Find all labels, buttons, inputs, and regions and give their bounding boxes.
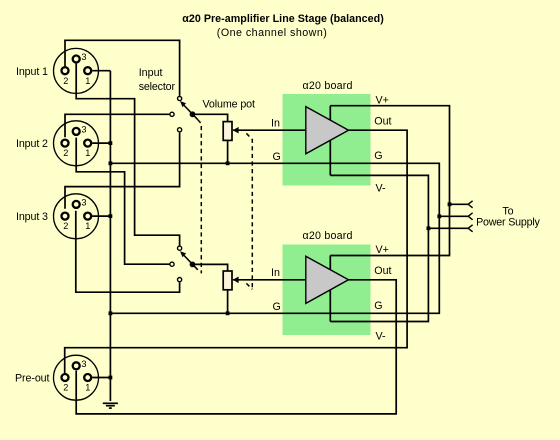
selector switch B — [170, 246, 198, 282]
svg-text:α20 board: α20 board — [303, 80, 353, 92]
svg-text:1: 1 — [85, 76, 90, 86]
dashed gang link selector A-B — [198, 120, 202, 274]
svg-text:3: 3 — [81, 124, 86, 134]
junction input3 pin1 — [109, 214, 113, 218]
svg-text:selector: selector — [139, 81, 176, 93]
wire pot2 bottom to G2 — [227, 290, 229, 313]
wire ground bus — [109, 71, 111, 401]
svg-text:3: 3 — [81, 52, 86, 62]
svg-text:To: To — [502, 205, 513, 217]
svg-text:3: 3 — [81, 359, 86, 369]
svg-text:1: 1 — [85, 148, 90, 158]
svg-text:G: G — [374, 300, 382, 312]
svg-text:α20 board: α20 board — [303, 230, 353, 242]
svg-text:2: 2 — [63, 148, 68, 158]
board 1 green block — [283, 94, 371, 186]
power supply line V- — [428, 225, 472, 232]
potentiometer VR2 body — [223, 271, 232, 290]
wire selector B common to pot2 top — [193, 264, 228, 271]
wire input2 pin2 to selector A middle contact — [65, 114, 169, 137]
svg-text:α20 Pre-amplifier Line Stage (: α20 Pre-amplifier Line Stage (balanced) — [182, 13, 384, 25]
svg-text:In: In — [271, 267, 280, 279]
wiper gang diagonal pot2 — [246, 283, 252, 289]
wire input2 pin3 to selector B middle contact — [76, 138, 169, 265]
wire input3 pin2 to selector A bottom contact — [65, 133, 180, 209]
junction pre-out pin1 — [109, 376, 113, 380]
wire pre-out pin1 to ground bus — [92, 377, 110, 379]
wire Out2 net to pre-out pin3 — [76, 280, 396, 414]
wire Out1 net to pre-out pin2 — [65, 130, 407, 373]
ground symbol — [103, 403, 118, 408]
wire V- net: V-1 line, V- bus, V-2 line — [330, 175, 428, 321]
wire V+ net: V+1 line, V+ bus, V+2 line — [330, 106, 449, 256]
svg-text:V+: V+ — [376, 244, 389, 256]
wire In2 from pot2 wiper to op-amp U2 — [233, 279, 306, 281]
wire input3 pin3 to selector B bottom contact — [76, 211, 180, 293]
svg-text:Input 3: Input 3 — [16, 211, 48, 223]
op-amp U1 triangle — [306, 107, 349, 154]
svg-text:(One channel shown): (One channel shown) — [217, 27, 327, 39]
svg-text:3: 3 — [81, 197, 86, 207]
svg-text:Out: Out — [374, 265, 391, 277]
junction V- bus power tap — [427, 226, 431, 230]
svg-text:1: 1 — [85, 383, 90, 393]
wire op-amp U1 supply pins vertical — [329, 106, 331, 176]
wire pot1 bottom to G1 — [227, 140, 229, 163]
XLR connector Pre-out — [54, 355, 99, 400]
svg-text:V+: V+ — [376, 94, 389, 106]
wire input1 pin2 to selector top contact — [65, 40, 180, 96]
power supply line G — [439, 213, 472, 220]
op-amp U2 triangle — [306, 256, 349, 303]
junction pot2 bottom on G2 — [226, 311, 230, 315]
XLR connector Input 3 — [54, 194, 99, 239]
wire op-amp U2 supply pins vertical — [329, 256, 331, 322]
XLR connector Input 1 — [54, 48, 99, 93]
junction G1 start — [109, 161, 113, 165]
wire input1 pin3 to selector B top contact — [76, 64, 179, 246]
svg-text:G: G — [374, 150, 382, 162]
power supply line V+ — [450, 201, 473, 208]
svg-text:Input 2: Input 2 — [16, 138, 48, 150]
wire In1 from pot1 wiper to op-amp U1 — [233, 129, 306, 131]
svg-text:V-: V- — [376, 331, 387, 343]
selector switch A — [170, 96, 198, 132]
junction pot1 bottom on G1 — [226, 161, 230, 165]
svg-text:Volume pot: Volume pot — [203, 98, 256, 110]
XLR connector Input 2 — [54, 121, 99, 166]
potentiometer VR1 body — [223, 122, 232, 141]
svg-text:Power Supply: Power Supply — [476, 217, 540, 229]
junction V+ bus power tap — [448, 202, 452, 206]
potentiometer VR2 wiper arrow — [233, 277, 239, 284]
svg-text:In: In — [271, 117, 280, 129]
wire input1 pin1 to ground bus — [92, 70, 110, 72]
wire selector A common to pot1 top — [193, 114, 228, 121]
board 2 green block — [283, 245, 371, 336]
wire G net: G1 line, G bus, G2 line — [110, 163, 439, 313]
svg-text:2: 2 — [63, 383, 68, 393]
wire input2 pin1 to ground bus — [92, 142, 110, 144]
potentiometer VR1 wiper arrow — [233, 127, 239, 134]
junction input2 pin1 — [109, 141, 113, 145]
svg-text:Input: Input — [139, 67, 163, 79]
svg-text:G: G — [273, 151, 281, 163]
svg-text:Input 1: Input 1 — [16, 66, 48, 78]
junction G2 start — [109, 311, 113, 315]
svg-text:G: G — [273, 301, 281, 313]
svg-text:Out: Out — [374, 116, 391, 128]
wire input3 pin1 to ground bus — [92, 215, 110, 217]
svg-text:V-: V- — [376, 182, 387, 194]
junction G bus power tap — [437, 214, 441, 218]
svg-text:1: 1 — [85, 221, 90, 231]
dashed gang link pot1-pot2 — [246, 133, 252, 289]
svg-text:2: 2 — [63, 221, 68, 231]
svg-text:2: 2 — [63, 76, 68, 86]
svg-text:Pre-out: Pre-out — [15, 372, 50, 384]
